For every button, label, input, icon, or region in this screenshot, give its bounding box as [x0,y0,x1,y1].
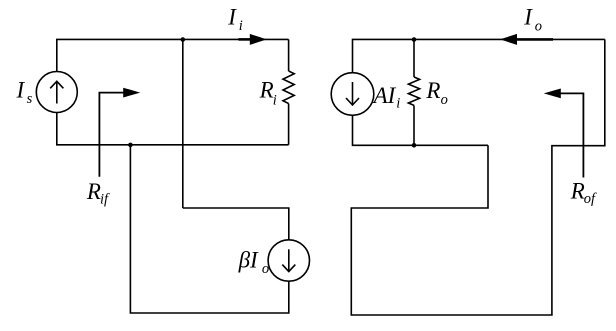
current source AIi [331,73,374,116]
current source Is [36,72,77,113]
wire top left [57,39,289,71]
wire feedback bottom [130,145,288,313]
wire AIi bottom [353,115,489,145]
svg-text:R: R [570,179,585,204]
arrow Rif [99,88,140,177]
svg-text:R: R [259,78,274,103]
wire Ro branch bottom [413,105,415,145]
node input top [181,37,186,42]
svg-text:s: s [27,91,33,107]
svg-text:i: i [239,18,243,34]
wire Ri branch bottom [288,104,290,145]
svg-text:βI: βI [238,247,259,272]
label Rif [86,179,110,207]
wire Ro branch top [413,39,415,77]
arrow Ii [238,34,266,45]
wire output loop [351,39,605,315]
label Is [16,77,33,107]
svg-text:o: o [262,261,269,277]
svg-text:R: R [425,78,440,103]
wire feedback left vertical [182,39,184,208]
wire Ri branch top [288,39,290,71]
label AIi [372,83,401,112]
svg-text:of: of [584,191,597,207]
label Io [523,5,542,35]
label Ii [227,5,243,35]
svg-text:i: i [396,95,400,111]
svg-text:R: R [86,179,101,204]
arrow Io [500,34,553,45]
resistor Ri [283,71,294,104]
node Ro top [412,37,417,42]
label Rof [570,179,597,208]
label Ri [259,78,277,109]
wire feedback horizontal [183,208,289,240]
node Ro bottom [412,143,417,148]
svg-text:o: o [441,92,448,108]
label Ro [425,78,447,108]
current source beta Io [268,240,309,281]
svg-text:I: I [16,77,26,102]
arrow Rof [544,89,584,178]
svg-text:o: o [535,18,542,34]
node input bottom [128,143,133,148]
label beta Io [238,247,270,277]
wire bottom left [57,113,289,145]
svg-text:i: i [273,93,277,109]
wire top right [353,39,605,72]
svg-text:AI: AI [372,83,397,108]
resistor Ro [408,77,419,105]
svg-text:I: I [523,5,533,30]
svg-text:I: I [227,5,237,30]
